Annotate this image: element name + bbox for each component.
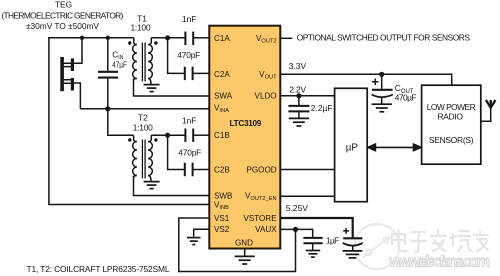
svg-text:VLDO: VLDO xyxy=(255,92,277,101)
svg-text:VSTORE: VSTORE xyxy=(243,214,277,223)
svg-text:C1A: C1A xyxy=(214,34,230,43)
svg-text:±30mV TO ±500mV: ±30mV TO ±500mV xyxy=(26,21,99,31)
svg-text:1nF: 1nF xyxy=(182,115,196,125)
svg-text:470pF: 470pF xyxy=(178,148,201,158)
svg-text:T2: T2 xyxy=(138,112,148,122)
svg-text:470µF: 470µF xyxy=(395,92,417,102)
svg-text:1:100: 1:100 xyxy=(131,23,151,33)
svg-text:C1B: C1B xyxy=(214,131,230,140)
svg-text:T1, T2: COILCRAFT LPR6235-752S: T1, T2: COILCRAFT LPR6235-752SML xyxy=(27,264,170,274)
svg-text:C2A: C2A xyxy=(214,70,230,79)
svg-text:SWB: SWB xyxy=(214,191,232,200)
svg-text:3.3V: 3.3V xyxy=(289,61,307,71)
svg-text:SWA: SWA xyxy=(214,92,233,101)
svg-text:µP: µP xyxy=(346,143,359,154)
svg-text:RADIO: RADIO xyxy=(438,111,464,121)
svg-text:1µF: 1µF xyxy=(326,235,339,245)
svg-text:1nF: 1nF xyxy=(182,14,196,24)
svg-text:1:100: 1:100 xyxy=(133,122,153,132)
svg-text:5.25V: 5.25V xyxy=(286,203,308,213)
svg-text:VAUX: VAUX xyxy=(255,225,277,234)
svg-text:www.elecfans.com: www.elecfans.com xyxy=(388,254,490,271)
svg-text:2.2µF: 2.2µF xyxy=(311,103,333,113)
svg-text:SENSOR(S): SENSOR(S) xyxy=(429,135,474,145)
svg-text:2.2V: 2.2V xyxy=(289,84,306,94)
svg-text:TEG: TEG xyxy=(55,0,72,9)
svg-text:VS1: VS1 xyxy=(214,214,230,223)
svg-text:C2B: C2B xyxy=(214,165,230,174)
svg-text:OPTIONAL SWITCHED OUTPUT FOR S: OPTIONAL SWITCHED OUTPUT FOR SENSORS xyxy=(297,32,471,42)
svg-text:VS2: VS2 xyxy=(214,225,230,234)
svg-text:LTC3109: LTC3109 xyxy=(230,119,262,128)
svg-text:PGOOD: PGOOD xyxy=(246,165,276,174)
svg-text:470pF: 470pF xyxy=(177,50,200,60)
svg-text:GND: GND xyxy=(235,238,253,247)
svg-text:(THERMOELECTRIC GENERATOR): (THERMOELECTRIC GENERATOR) xyxy=(1,10,123,20)
svg-text:47µF: 47µF xyxy=(112,61,127,70)
